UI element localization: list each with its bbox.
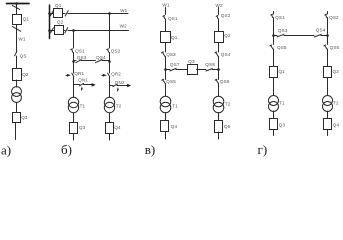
wire Q1 to slash xyxy=(63,13,66,15)
jumper breaker Q3 xyxy=(188,65,198,75)
wire QR1 down xyxy=(73,77,75,98)
breaker Q3 xyxy=(270,119,278,130)
svg-text:б): б) xyxy=(61,142,72,157)
wire Q1 down xyxy=(16,25,18,52)
jumper wire right xyxy=(321,35,327,37)
svg-text:Q3: Q3 xyxy=(21,115,28,120)
disconnector QS2 knife xyxy=(326,15,327,18)
breaker Q1 xyxy=(161,32,171,43)
jumper wire left xyxy=(273,35,277,37)
node jumper left xyxy=(164,68,167,71)
svg-text:QN1: QN1 xyxy=(78,78,88,83)
disconnector QS1 knife xyxy=(72,49,73,52)
svg-text:QS4: QS4 xyxy=(221,52,231,57)
node junction on bus xyxy=(15,2,18,5)
svg-text:Q4: Q4 xyxy=(333,122,340,127)
breaker Q1 xyxy=(54,9,63,18)
disconnector QS3 knife xyxy=(277,34,284,37)
svg-text:в): в) xyxy=(145,142,155,157)
wire bus to Q1 xyxy=(50,13,54,15)
wire T1 to Q4 xyxy=(165,113,167,122)
disconnector QS8 knife xyxy=(206,69,213,71)
svg-text:QS2: QS2 xyxy=(329,15,339,20)
svg-text:QS5: QS5 xyxy=(277,45,287,50)
svg-text:QR1: QR1 xyxy=(74,71,84,76)
svg-text:W2: W2 xyxy=(120,24,127,29)
svg-text:Q4: Q4 xyxy=(114,125,121,130)
jumper wire Q3 to QS8 xyxy=(197,69,207,71)
node jumper left xyxy=(272,34,275,37)
svg-text:Q1: Q1 xyxy=(279,69,286,74)
svg-text:QS: QS xyxy=(20,53,27,58)
bus (system) xyxy=(7,3,30,5)
node on bus top branch xyxy=(48,12,51,15)
disconnector QS1 knife xyxy=(272,15,273,18)
line 1 wire stub xyxy=(273,12,275,15)
disconnector QS4 knife xyxy=(216,52,219,56)
QN2 branch wire to arrow xyxy=(117,85,128,87)
jumper wire left part xyxy=(74,60,77,62)
svg-text:Q2: Q2 xyxy=(333,69,340,74)
bus vertical (source) xyxy=(49,5,51,39)
QN1 closing arrow stem xyxy=(81,89,83,92)
svg-text:Q1: Q1 xyxy=(55,3,62,8)
jumper wire right xyxy=(213,69,219,71)
wire QR2 down xyxy=(109,77,111,98)
disconnector QS3 knife xyxy=(162,52,165,56)
line W2 xyxy=(68,30,129,32)
svg-text:Q2: Q2 xyxy=(22,72,29,77)
svg-text:W1: W1 xyxy=(162,3,169,8)
svg-text:T1: T1 xyxy=(80,103,86,108)
wire QS1 to QR1 xyxy=(73,53,75,74)
disconnector QS6 tick xyxy=(215,78,217,81)
breaker Q2 xyxy=(55,26,64,35)
disconnector QS3 tick xyxy=(162,51,164,54)
disconnector slash before Q2 xyxy=(50,28,53,33)
disconnector (below Q1, slash) xyxy=(12,26,20,31)
node W2 tap xyxy=(72,29,75,32)
jumper wire middle xyxy=(284,35,314,37)
wire Q4 down xyxy=(109,134,111,141)
svg-text:Q3: Q3 xyxy=(279,122,286,127)
wire T2 to Q4 xyxy=(109,113,111,123)
breaker Q4 xyxy=(106,123,114,134)
svg-text:QS1: QS1 xyxy=(75,48,85,53)
breaker Q1 xyxy=(270,67,278,78)
wire T2 to Q4 xyxy=(327,111,329,119)
disconnector QS2 knife xyxy=(217,16,218,19)
transformer T1 xyxy=(160,96,171,107)
svg-text:QS2: QS2 xyxy=(111,48,121,53)
disconnector QS2 tick xyxy=(325,14,327,15)
wire QS4 to jumper xyxy=(218,57,220,80)
disconnector QS (top, slash) xyxy=(12,5,19,9)
wire Q2 to T2 xyxy=(327,78,329,96)
breaker Q4 xyxy=(161,121,169,132)
svg-text:QS7: QS7 xyxy=(170,62,180,67)
svg-text:W1: W1 xyxy=(18,37,25,42)
transformer T2 xyxy=(213,96,224,107)
svg-text:QS5: QS5 xyxy=(166,79,176,84)
disconnector QS2 tick xyxy=(216,15,218,16)
separator QR1 arrow xyxy=(67,74,71,77)
disconnector slash before Q1 xyxy=(50,11,53,16)
transformer T2 xyxy=(323,96,333,106)
disconnector QS1 knife xyxy=(164,16,165,19)
disconnector QS7 knife xyxy=(170,68,176,71)
jumper wire right part xyxy=(102,60,110,62)
wire bus to Q2 xyxy=(50,30,55,32)
line W1 wire xyxy=(165,8,167,15)
svg-text:QS4: QS4 xyxy=(316,27,326,32)
svg-text:Q5: Q5 xyxy=(224,124,231,129)
svg-text:QS1: QS1 xyxy=(275,15,285,20)
disconnector QS5 knife xyxy=(271,45,273,49)
wire QS2 to QR2 xyxy=(109,53,111,74)
wire QS2 to Q2 xyxy=(218,19,220,31)
jumper wire left xyxy=(165,69,170,71)
disconnector QS4 tick xyxy=(215,51,217,54)
wire QS1 to Q1 xyxy=(165,19,167,32)
wire Q2 to transformer xyxy=(16,80,18,87)
wire Q5 down xyxy=(218,132,220,139)
disconnector QS1 tick xyxy=(71,48,73,51)
separator QR2 arrow tail xyxy=(102,75,103,77)
svg-text:Q2: Q2 xyxy=(224,33,231,38)
separator QR1 knife xyxy=(72,73,74,76)
svg-text:Q4: Q4 xyxy=(171,124,178,129)
wire left block drop xyxy=(73,31,75,49)
switch QS knife xyxy=(15,52,17,56)
short-circuiter QN2 branch wire xyxy=(110,85,114,87)
wire Q2 to slash xyxy=(64,30,66,32)
short-circuiter QN1 branch wire xyxy=(74,84,80,86)
disconnector QS4 knife xyxy=(96,60,103,63)
disconnector QS5 tick xyxy=(162,78,164,81)
separator QR1 arrow tail xyxy=(66,75,67,77)
QN2 closing arrow stem xyxy=(117,90,119,91)
QN1 branch wire to arrow xyxy=(84,84,93,86)
node jumper left xyxy=(72,60,75,63)
QN1 knife xyxy=(79,83,83,86)
wire Q3 down xyxy=(73,134,75,141)
breaker Q2 xyxy=(13,69,22,81)
svg-text:T1: T1 xyxy=(172,104,178,109)
svg-text:Q1: Q1 xyxy=(23,17,30,22)
disconnector QS6 knife xyxy=(216,80,219,84)
breaker Q5 xyxy=(215,121,223,133)
wire Q4 down xyxy=(327,130,329,136)
svg-text:QN2: QN2 xyxy=(115,80,125,85)
svg-text:г): г) xyxy=(258,142,268,157)
svg-text:Q1: Q1 xyxy=(171,35,178,40)
disconnector QS2 knife xyxy=(108,49,109,52)
wire Q1 to T1 xyxy=(273,78,275,96)
disconnector QS2 tick xyxy=(107,48,109,51)
wire bus to Q1 xyxy=(16,4,18,15)
svg-text:QS6: QS6 xyxy=(330,45,340,50)
disconnector QS5 knife xyxy=(163,80,166,84)
separator QR2 knife xyxy=(108,73,110,76)
disconnector QS3 knife xyxy=(76,60,81,63)
wire QS6 to Q2 xyxy=(327,49,329,67)
disconnector QS5 tick xyxy=(270,44,272,47)
breaker Q2 xyxy=(324,67,332,78)
node jumper right xyxy=(326,34,329,37)
QN2 knife xyxy=(113,84,117,87)
jumper wire middle xyxy=(81,60,96,62)
wire Q3 down xyxy=(273,130,275,136)
wire QS5 to Q1 xyxy=(273,49,275,67)
wire T1 to Q3 xyxy=(73,113,75,123)
node on bus second branch xyxy=(48,29,51,32)
node jumper right xyxy=(217,68,220,71)
svg-text:T2: T2 xyxy=(225,102,231,107)
svg-text:QS1: QS1 xyxy=(168,16,178,21)
wire right block drop from W1 xyxy=(109,14,111,49)
svg-text:T2: T2 xyxy=(333,100,339,105)
wire QS to Q2 xyxy=(16,56,18,69)
breaker Q2 xyxy=(215,32,224,43)
disconnector QS1 tick xyxy=(163,15,165,16)
QN1 closing arrow (up) xyxy=(81,87,83,90)
svg-text:Q3: Q3 xyxy=(188,59,195,64)
breaker Q4 xyxy=(324,119,332,130)
svg-text:T1: T1 xyxy=(279,100,285,105)
jumper wire to Q3 xyxy=(176,69,187,71)
wire QS1 to jumper xyxy=(273,18,275,45)
transformer T1 xyxy=(269,96,279,106)
QN2 arrow head xyxy=(127,84,131,88)
svg-text:а): а) xyxy=(1,143,11,158)
svg-text:Q2: Q2 xyxy=(57,19,64,24)
disconnector QS6 tick xyxy=(324,44,326,47)
wire Q2 to QS4 xyxy=(218,43,220,53)
wire Q1 to QS3 xyxy=(165,43,167,53)
disconnector QS6 knife xyxy=(325,45,327,49)
breaker Q3 xyxy=(13,113,21,123)
transformer T (two circles) xyxy=(12,87,22,97)
QN2 closing arrow (up) xyxy=(117,87,119,90)
wire Q4 down xyxy=(165,132,167,139)
breaker Q1 xyxy=(13,15,22,25)
svg-text:QS8: QS8 xyxy=(205,62,215,67)
wire QS2 to jumper xyxy=(327,18,329,45)
svg-text:QS4: QS4 xyxy=(96,55,106,60)
separator QR2 arrow xyxy=(103,74,107,77)
wire T1 to Q3 xyxy=(273,111,275,119)
wire Q3 down xyxy=(15,123,17,140)
line W2 wire xyxy=(218,8,220,15)
line 2 wire stub xyxy=(327,12,329,15)
node jumper right xyxy=(108,60,111,63)
disconnector QS1 tick xyxy=(271,14,273,15)
svg-text:Q3: Q3 xyxy=(79,125,86,130)
QN1 arrow head xyxy=(92,83,96,87)
svg-text:W2: W2 xyxy=(216,3,223,8)
svg-text:QS2: QS2 xyxy=(221,13,231,18)
disconnector slash after Q2 xyxy=(65,28,68,33)
svg-text:QS6: QS6 xyxy=(220,79,230,84)
transformer T1 xyxy=(68,97,78,107)
node W1 tap xyxy=(108,12,111,15)
svg-text:QS3: QS3 xyxy=(278,28,288,33)
svg-text:T2: T2 xyxy=(116,103,122,108)
disconnector slash after Q1 xyxy=(65,11,68,16)
transformer T2 xyxy=(104,97,114,107)
wire QS3 to jumper xyxy=(165,57,167,80)
svg-text:QS3: QS3 xyxy=(77,55,87,60)
line W1 xyxy=(68,13,128,15)
disconnector QS4 knife xyxy=(314,34,321,37)
wire T2 to Q5 xyxy=(218,113,220,121)
svg-text:QR2: QR2 xyxy=(111,72,121,77)
wire transformer to Q3 xyxy=(16,103,18,113)
wire QS5 to T1 xyxy=(165,84,167,97)
svg-text:QS3: QS3 xyxy=(166,52,176,57)
breaker Q3 xyxy=(70,123,78,134)
svg-text:W1: W1 xyxy=(120,8,127,13)
wire QS6 to T2 xyxy=(218,84,220,97)
